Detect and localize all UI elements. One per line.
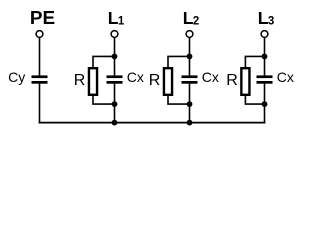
terminal L3 (261, 31, 268, 38)
wire L3 vertical lower (264, 84, 266, 124)
wire L2 resistor branch bottom (168, 96, 190, 105)
node junction L3 top (262, 54, 268, 60)
capacitor Cx (L1) (107, 75, 123, 83)
svg-text:Cx: Cx (277, 69, 294, 85)
wire L2 vertical upper (189, 37, 191, 76)
node L3 label (258, 8, 275, 28)
svg-text:Cx: Cx (202, 69, 219, 85)
wire L1 vertical lower (114, 84, 116, 124)
resistor R (L2) (163, 67, 174, 96)
wire PE vertical upper (39, 37, 41, 75)
svg-text:1: 1 (118, 15, 125, 27)
capacitor Cx (L2) (182, 75, 198, 83)
wire L1 resistor branch top (93, 56, 115, 67)
svg-text:Cx: Cx (127, 69, 144, 85)
resistor R (L1) (88, 67, 99, 96)
svg-text:PE: PE (30, 8, 55, 28)
node junction L1 top (112, 54, 118, 60)
node junction L2 top (187, 54, 193, 60)
wire L3 vertical upper (264, 37, 266, 76)
wire L3 resistor branch bottom (245, 96, 264, 105)
node junction L2 rail (187, 120, 193, 126)
terminal L2 (186, 31, 193, 38)
terminal L1 (111, 31, 118, 38)
node junction L1 bottom (112, 101, 118, 107)
capacitor Cy (32, 75, 48, 83)
wire L2 resistor branch top (168, 56, 190, 67)
svg-text:R: R (74, 72, 86, 89)
wire L1 vertical upper (114, 37, 116, 76)
wire L3 resistor branch top (245, 56, 264, 67)
svg-text:R: R (149, 72, 161, 89)
node junction L3 bottom (262, 101, 268, 107)
resistor R (L3) (240, 67, 251, 96)
node junction L1 rail (112, 120, 118, 126)
svg-text:2: 2 (193, 15, 199, 27)
wire PE vertical lower (39, 84, 41, 124)
node L1 label (108, 8, 125, 28)
node L2 label (183, 8, 200, 28)
terminal PE (36, 31, 43, 38)
svg-text:Cy: Cy (8, 69, 25, 85)
capacitor Cx (L3) (257, 75, 273, 83)
svg-text:3: 3 (268, 15, 274, 27)
wire bottom rail (39, 122, 266, 124)
svg-text:R: R (226, 72, 238, 89)
node junction L2 bottom (187, 101, 193, 107)
wire L2 vertical lower (189, 84, 191, 124)
wire L1 resistor branch bottom (93, 96, 115, 105)
